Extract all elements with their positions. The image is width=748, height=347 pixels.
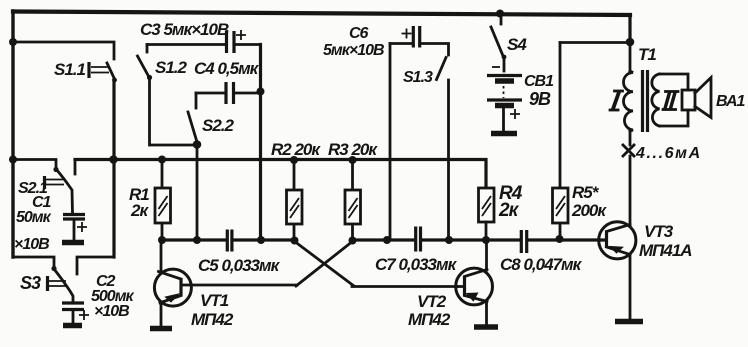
svg-text:С4 0,5мк: С4 0,5мк [194,59,260,78]
svg-text:С5 0,033мк: С5 0,033мк [198,256,281,275]
svg-text:МП42: МП42 [408,310,451,329]
svg-text:4...6мА: 4...6мА [635,145,702,162]
svg-text:СВ1: СВ1 [524,73,554,90]
svg-text:5мк×10В: 5мк×10В [323,42,384,59]
svg-text:С8 0,047мк: С8 0,047мк [500,255,583,274]
svg-text:9В: 9В [529,89,551,109]
svg-text:S1.1: S1.1 [54,60,86,79]
svg-text:VT3: VT3 [644,222,674,241]
svg-text:S1.3: S1.3 [403,69,433,86]
svg-text:R3 20к: R3 20к [328,140,378,159]
svg-text:R2 20к: R2 20к [271,140,321,159]
svg-text:С3 5мк×10В: С3 5мк×10В [140,20,229,39]
svg-text:S3: S3 [20,273,41,293]
svg-text:С6: С6 [349,25,369,42]
svg-text:МП41А: МП41А [639,241,692,260]
svg-text:×10В: ×10В [14,236,49,253]
svg-text:VT1: VT1 [200,291,229,310]
svg-text:50мк: 50мк [16,209,52,226]
svg-text:Т1: Т1 [638,45,656,64]
svg-text:S4: S4 [507,35,527,54]
svg-text:С7 0,033мк: С7 0,033мк [375,255,458,274]
svg-text:×10В: ×10В [94,303,129,320]
svg-text:S2.2: S2.2 [202,116,235,135]
svg-text:2к: 2к [130,201,149,220]
svg-text:VT2: VT2 [417,292,447,311]
svg-text:МП42: МП42 [191,310,234,329]
svg-text:ВА1: ВА1 [716,93,746,110]
svg-text:S1.2: S1.2 [155,58,188,77]
svg-text:R5*: R5* [572,183,600,202]
svg-text:200к: 200к [571,201,607,220]
svg-text:2к: 2к [498,200,520,221]
